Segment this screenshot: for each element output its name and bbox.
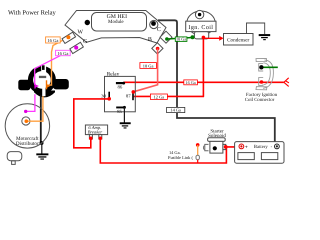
red wire coil+ to condenser with arrow xyxy=(203,37,220,39)
red bus breaker to solenoid/battery xyxy=(100,138,239,163)
solenoid body xyxy=(210,141,223,153)
label 16 Ga magenta xyxy=(56,50,71,56)
GM HEI module body xyxy=(65,11,166,44)
solenoid top flange xyxy=(208,138,226,142)
pin G connector xyxy=(70,42,84,53)
condenser ground wire xyxy=(247,23,265,34)
fusible link dot xyxy=(196,143,200,147)
breaker box 6 Amp xyxy=(85,125,107,135)
relay pin 87 bar xyxy=(132,91,134,100)
coil negative green dot xyxy=(191,35,195,39)
condenser box xyxy=(224,34,254,46)
lobe right xyxy=(53,79,69,89)
lobe left xyxy=(18,80,30,91)
label 18 Ga red xyxy=(140,63,157,69)
svg-text:18 Ga: 18 Ga xyxy=(143,63,154,68)
pickup coil lead orange inside distributor xyxy=(27,96,43,121)
label 18 Ga green xyxy=(175,37,187,42)
relay pin 30 bar xyxy=(108,92,110,101)
svg-text:16 Ga: 16 Ga xyxy=(57,51,68,56)
red wire 18Ga module B to relay 87 xyxy=(133,49,157,92)
ignition coil dome xyxy=(187,11,215,35)
label 16 Ga orange xyxy=(46,37,61,43)
relay ground wire xyxy=(123,107,125,122)
green wire 18Ga module C to coil xyxy=(167,38,193,40)
module mounting dot left xyxy=(85,20,90,25)
module inner plate xyxy=(92,13,147,32)
svg-text:Module: Module xyxy=(108,19,124,25)
pin W connector xyxy=(62,32,76,43)
svg-text:Distributor: Distributor xyxy=(16,141,39,147)
label 16 Ga red xyxy=(184,80,198,85)
ground symbol distributor xyxy=(41,143,43,154)
junction dot coil+ xyxy=(202,36,206,40)
relay box xyxy=(105,76,136,111)
battery box xyxy=(235,142,284,164)
svg-text:86: 86 xyxy=(118,84,123,90)
fusible link capsule xyxy=(196,155,199,160)
black wire module to battery minus xyxy=(158,20,275,143)
svg-text:Breaker: Breaker xyxy=(88,129,103,134)
slot bottom xyxy=(42,87,45,96)
svg-text:G: G xyxy=(83,39,88,45)
red wire 16Ga relay86 to coil+/factory connector xyxy=(124,81,284,83)
svg-text:14 Ga: 14 Ga xyxy=(170,108,181,113)
pickup gray bar xyxy=(39,76,46,78)
wire orange 16Ga from W pin to pickup xyxy=(48,37,69,85)
rotor stub xyxy=(42,65,45,70)
distributor pickup ring xyxy=(18,65,69,98)
ign coil box xyxy=(186,21,216,31)
svg-text:12 Ga: 12 Ga xyxy=(154,95,165,100)
label 12 Ga xyxy=(150,94,167,100)
solenoid left bracket xyxy=(205,144,209,150)
module mounting hole right xyxy=(150,20,158,28)
svg-text:16 Ga: 16 Ga xyxy=(47,38,58,43)
svg-text:W: W xyxy=(77,29,83,35)
factory connector shape xyxy=(256,58,273,89)
pickup coil lead magenta inside distributor xyxy=(26,94,35,111)
breaker terminal left xyxy=(89,135,92,139)
solenoid right tab xyxy=(223,144,226,149)
svg-text:+: + xyxy=(245,144,248,150)
battery minus terminal xyxy=(275,144,280,149)
svg-text:85: 85 xyxy=(117,109,122,115)
distributor cap lower bowl xyxy=(34,91,55,98)
ground symbol condenser xyxy=(259,34,271,36)
pickup arrow magenta terminal xyxy=(35,84,39,88)
vacuum advance canister xyxy=(7,152,22,165)
pin B diamond xyxy=(152,43,163,54)
svg-text:Coil Connector: Coil Connector xyxy=(245,97,275,103)
svg-text:C: C xyxy=(157,27,161,33)
pin C diamond xyxy=(160,31,172,43)
ground wire from pickup to distributor ground xyxy=(40,96,42,144)
svg-text:B: B xyxy=(148,37,152,43)
relay pin 85 bar xyxy=(116,107,124,109)
solenoid right terminal dot xyxy=(224,145,228,149)
junction dot at factory connector xyxy=(260,80,264,84)
factory wire arrow xyxy=(284,78,289,87)
coil tower rings xyxy=(195,10,203,18)
svg-text:Ign. Coil: Ign. Coil xyxy=(188,24,213,31)
battery plus terminal xyxy=(239,144,244,149)
svg-text:18 Ga: 18 Ga xyxy=(176,37,186,42)
red wire relay30 to breaker xyxy=(74,99,109,148)
node dot on distributor circle xyxy=(40,141,44,145)
breaker terminal right xyxy=(99,135,102,139)
battery cells xyxy=(238,153,254,160)
small shaft circle xyxy=(22,117,30,125)
svg-text:Fusible Link (: Fusible Link ( xyxy=(168,155,193,160)
svg-text:87: 87 xyxy=(126,94,131,100)
red wire 12Ga relay87 to coil feed xyxy=(134,95,204,97)
ground symbol relay xyxy=(120,122,131,124)
svg-text:With Power Relay: With Power Relay xyxy=(8,9,57,16)
wire magenta 16Ga from G pin to pickup xyxy=(35,48,76,85)
red wire coil+ down to relay feeds xyxy=(202,37,204,97)
svg-text:Battery: Battery xyxy=(254,144,268,150)
slot top xyxy=(41,65,46,73)
relay pin 86 bar xyxy=(116,82,124,84)
distributor body circle xyxy=(5,104,49,148)
pickup arrow orange terminal xyxy=(46,80,47,89)
connector green dot xyxy=(259,65,263,69)
svg-text:Condenser: Condenser xyxy=(227,37,249,43)
label 14 Ga xyxy=(167,107,185,112)
green wire factory connector xyxy=(261,66,277,68)
fusible link wire xyxy=(197,145,199,155)
coil base xyxy=(194,32,208,39)
svg-text:16 Ga: 16 Ga xyxy=(186,80,196,85)
